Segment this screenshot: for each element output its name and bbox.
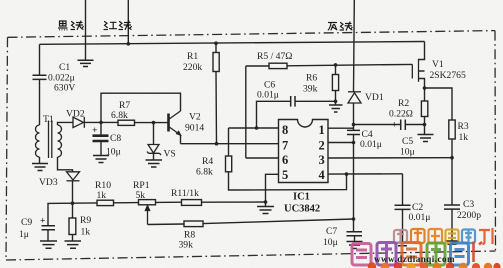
wire C2 top lead [402, 174, 404, 205]
ground under C7 [347, 242, 363, 249]
frame dash-dot border bottom [6, 251, 496, 260]
frame dash-dot border right [494, 31, 497, 251]
wire secondary bottom to VD3 [58, 157, 73, 172]
wire VD1 anode down [353, 103, 355, 130]
wire source to R3 [425, 88, 453, 120]
wire R6 top lead [335, 65, 337, 75]
junction VS node [152, 121, 156, 125]
wire collector feedback loop [101, 93, 181, 122]
junction C8 node [99, 121, 103, 125]
node black-wire input vertical [85, 0, 87, 60]
wire R8 to pin2 node [203, 219, 354, 224]
wire RP1 to R11 [156, 201, 182, 203]
watermark row1 bubble characters [394, 228, 493, 244]
node red-wire input vertical [127, 0, 129, 44]
wire secondary top to VD2 [58, 122, 73, 125]
junction R1 bus [214, 41, 218, 45]
wire C5 left lead [354, 124, 401, 126]
wire C7 lead [353, 219, 355, 231]
ground under VS [146, 160, 163, 167]
wire R1 top lead [215, 43, 217, 52]
zener VS [147, 145, 161, 156]
junction pin2 vertical [352, 141, 356, 145]
resistor R8 [184, 221, 203, 227]
junction R1 bottom [215, 142, 219, 146]
diode VD1 [348, 92, 361, 103]
wire C3 bottom [451, 209, 453, 240]
ground under C8 [93, 156, 109, 163]
wire C1 to T1 primary [39, 79, 41, 125]
junction R2 C5 ground [423, 123, 427, 127]
junction C5 left [352, 123, 356, 127]
capacitor C2 [395, 205, 411, 209]
ground under C3 [445, 241, 459, 244]
resistor R10 [97, 200, 114, 205]
capacitor C6 [291, 96, 295, 107]
junction V1 source node [423, 86, 427, 90]
wire VS stem [153, 123, 155, 145]
capacitor C4 [347, 130, 360, 134]
wire pin4 rail [328, 173, 403, 175]
wire wiper to R8 [148, 223, 185, 226]
wire C8 lead [100, 122, 102, 134]
frame dash-dot border left [6, 37, 8, 260]
ground under pin5 [257, 207, 274, 214]
ground under C9 [40, 241, 57, 248]
wire V1 source and body [419, 71, 425, 88]
wire R2 bottom lead [424, 117, 426, 135]
resistor R2 [421, 101, 427, 117]
potentiometer RP1 [139, 200, 156, 205]
wire VD2 cathode to node [84, 121, 118, 123]
wire gate drive [287, 64, 412, 65]
wire pin6 stub [246, 157, 279, 159]
capacitor C5 [401, 120, 406, 131]
junction R3 pin3 [450, 156, 454, 160]
wire C4 to pin2 vertical [353, 135, 355, 220]
resistor R1 [213, 53, 219, 72]
junction C6 leg on pin8 rail [255, 126, 259, 130]
junction VD3 R9 node [71, 201, 75, 205]
label gray wire 灰线 [328, 22, 352, 30]
wire VCC rail to pin7 [181, 143, 279, 145]
junction pin4 R4 loop [345, 172, 349, 176]
ground under C2 [396, 243, 410, 246]
wire R4 bottom lead [229, 172, 347, 190]
wire R11 to pin5 ground [202, 201, 266, 203]
node gray-wire input vertical [353, 0, 356, 92]
wire pin5 stub to ground [266, 174, 279, 206]
wire pin6 to R5 vertical [245, 66, 247, 158]
wire C6 right to R6 bottom [295, 100, 336, 102]
wire main top bus [40, 42, 425, 45]
resistor R4 [226, 156, 232, 172]
diode VD2 [73, 117, 84, 128]
wire VD3 to node [72, 181, 74, 203]
resistor R9 [69, 218, 76, 235]
resistor R5 [269, 63, 287, 68]
RP1 wiper arrow [145, 206, 149, 225]
wire node to R10 [73, 202, 98, 204]
wire R9 top lead [72, 203, 74, 218]
transformer T1 secondary winding [58, 125, 62, 157]
wire R9 bottom lead [72, 235, 74, 241]
capacitor C3 [444, 205, 460, 209]
wire R10 to RP1 [114, 202, 139, 204]
wire C2 bottom [402, 209, 404, 242]
resistor R3 [449, 120, 455, 139]
wire left rail down from bus [39, 44, 41, 75]
junction R8 wire C7 [352, 217, 356, 221]
transformer T1 core [49, 121, 52, 159]
transistor V1 MOSFET gate bar [411, 64, 413, 78]
junction R6 bottom node [334, 100, 338, 104]
junction red wire to bus [127, 42, 131, 46]
wire pin8 rail [229, 127, 279, 129]
transistor V1 channel bar [418, 59, 420, 82]
label black wire 黑线 [59, 21, 84, 30]
scan noise overlay [0, 0, 1, 1]
watermark row2 bubble characters [352, 242, 482, 266]
transformer T1 primary winding [36, 125, 40, 157]
junction pin5 R11 [264, 200, 268, 204]
wire R1 bottom lead [215, 72, 218, 144]
label red wire 红线 [104, 21, 131, 30]
wire C7 to ground [354, 236, 356, 241]
resistor R11 [182, 200, 202, 206]
ground under black wire [78, 60, 94, 66]
wire R3 node to C3 [451, 158, 453, 205]
transistor V2 [169, 111, 181, 135]
wire R6 bottom lead [335, 91, 337, 105]
resistor R7 [118, 120, 135, 125]
wire V2 emitter to VCC rail [180, 135, 182, 144]
wire C6 left leg [257, 101, 291, 128]
wire pin3 rail [328, 157, 452, 159]
ground under R9 [65, 241, 82, 248]
wire VS to ground [153, 153, 155, 159]
wire R5 left lead [246, 65, 269, 67]
capacitor C9 [42, 226, 56, 230]
wire V1 drain [419, 42, 425, 60]
diode VD3 [67, 172, 80, 181]
wire C5 right lead [405, 124, 424, 126]
wire primary bottom to ground [39, 157, 41, 163]
op-amp IC1 UC3842 body [279, 120, 329, 183]
wire C9 branch [48, 203, 73, 225]
wire R3 bottom [451, 139, 453, 158]
ground under T1 primary [32, 164, 48, 171]
ground under R6 C6 [329, 105, 343, 112]
capacitor C1 [33, 75, 47, 79]
capacitor C7 [347, 232, 363, 236]
capacitor C8 [93, 136, 109, 141]
ground under R2 [418, 135, 434, 142]
resistor R4 top lead [228, 128, 230, 156]
resistor R6 [332, 75, 338, 91]
wire C8 to ground [100, 141, 102, 155]
wire pin2 stub [328, 142, 354, 144]
frame dash-dot border top [8, 31, 496, 38]
wire R2 top lead [424, 88, 426, 101]
junction R6 gate wire [334, 63, 338, 67]
wire R7 to base [135, 122, 169, 124]
wire C9 to ground [47, 230, 49, 241]
wire pin1 stub [328, 127, 354, 129]
watermark bottom blob row [368, 262, 501, 268]
